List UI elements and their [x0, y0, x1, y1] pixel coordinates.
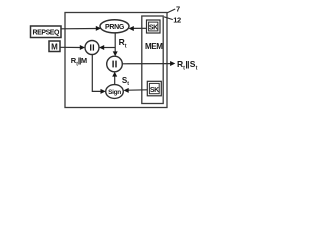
- concat node 1 (|| circle left): [85, 41, 99, 55]
- block M: [49, 41, 60, 52]
- svg-text:Rt||M: Rt||M: [71, 56, 87, 67]
- inner box 12 (MEM/key module): [142, 16, 163, 104]
- block REPSEQ: [31, 26, 62, 38]
- svg-text:Rt||St: Rt||St: [177, 59, 198, 71]
- svg-text:SK: SK: [150, 87, 159, 94]
- svg-text:12: 12: [173, 15, 181, 24]
- svg-text:St: St: [122, 76, 129, 87]
- svg-text:7: 7: [176, 4, 180, 13]
- svg-text:Sign: Sign: [108, 89, 121, 96]
- wire REPSEQ to PRNG: [61, 26, 101, 31]
- concat node 2 (|| circle centre): [107, 56, 123, 72]
- reference 12 leader: [164, 17, 173, 20]
- wire SK2 to Sign: [124, 88, 148, 93]
- wire PRNG down to concat node 2: [113, 33, 118, 56]
- outer box 7: [65, 13, 167, 108]
- wire M to concat node 1: [60, 45, 85, 50]
- svg-text:PRNG: PRNG: [105, 24, 125, 31]
- wire SK1 to PRNG: [129, 26, 147, 31]
- block PRNG (pseudo-random number generator): [100, 20, 129, 33]
- svg-text:M: M: [51, 42, 58, 51]
- svg-text:MEM: MEM: [145, 42, 163, 51]
- wire Sign up to concat node 2: [112, 72, 117, 85]
- block Sign (signature operation): [106, 85, 124, 99]
- svg-text:SK: SK: [149, 25, 158, 32]
- reference 7 leader: [167, 9, 175, 13]
- wire concat node 2 out to Rt||St: [122, 61, 175, 66]
- wire branch Rt to concat node 1: [99, 45, 115, 50]
- svg-text:REPSEQ: REPSEQ: [33, 29, 60, 36]
- wire concat node 1 down and right to Sign: [92, 55, 105, 94]
- key box SK2 (bottom, double border): [147, 81, 161, 96]
- key box SK1 (top, double border): [147, 20, 161, 33]
- svg-text:Rt: Rt: [119, 37, 127, 49]
